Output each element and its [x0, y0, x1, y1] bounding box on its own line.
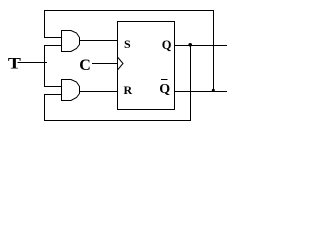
node B junction dot (Q-bar to feedback): [212, 89, 215, 92]
wire: Q feedback (from node A down, across bottom, up to AND2 bottom input): [45, 46, 191, 121]
wire: Q-bar output: [175, 91, 228, 93]
latch U1 (SR latch box): [118, 22, 175, 110]
wire: AND1 output to S input: [80, 40, 118, 42]
svg-text:C: C: [79, 57, 91, 74]
and-gate G2 (bottom): [62, 80, 80, 101]
wire: AND2 output to R input: [80, 91, 118, 93]
node A junction dot (Q to feedback): [188, 43, 192, 47]
svg-text:Q: Q: [159, 82, 170, 97]
svg-text:T: T: [8, 54, 21, 72]
svg-text:Q: Q: [162, 38, 172, 52]
and-gate G1 (top): [62, 31, 80, 52]
wire: T input horizontal: [18, 62, 48, 64]
svg-text:R: R: [124, 83, 133, 97]
overbar of Q-bar label: [161, 79, 168, 81]
svg-text:S: S: [124, 37, 131, 51]
wire: Q-bar feedback (top loop from node B up, across, down to AND1 top input): [45, 11, 214, 92]
wire: C clock input: [92, 63, 118, 65]
wire: Q output: [175, 45, 228, 47]
wire: T input branch to AND1 bottom input and AND2 top input: [45, 46, 62, 87]
clock triangle on U1: [118, 57, 124, 70]
